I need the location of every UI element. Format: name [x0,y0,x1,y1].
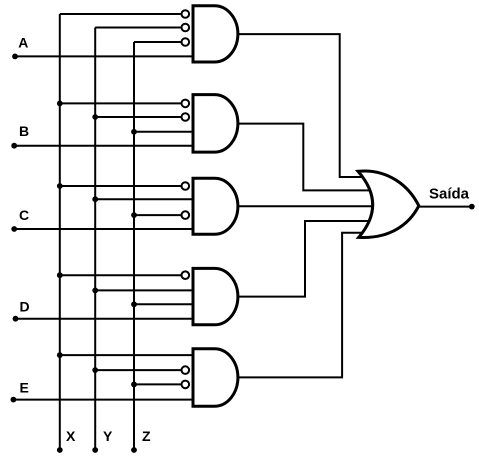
inverted input bubble U5 pin 3 [182,381,190,389]
input A terminal dot [12,54,18,60]
wire input E to U5 [13,399,193,401]
svg-text:Z: Z [142,428,151,444]
net Y terminal dot [92,447,98,453]
wire Z to U2 pin 3 [134,131,193,133]
junction X to U4 [57,272,63,278]
wire U6 output to Saida terminal [419,206,472,208]
net Z vertical wire [133,42,135,450]
inverted input bubble U1 pin 1 [182,10,190,18]
wire Z to U4 pin 3 [134,303,193,305]
input D terminal dot [13,316,19,322]
junction X to U5 [57,352,63,358]
inverted input bubble U3 pin 1 [182,182,190,190]
inverted input bubble U3 pin 3 [182,211,190,219]
inverted input bubble U4 pin 1 [182,271,190,279]
wire Y to U5 pin 2 [95,369,181,371]
AND gate U3 [193,178,238,234]
net X terminal dot [57,447,63,453]
net X vertical wire [59,14,61,450]
wire X to U2 pin 1 [60,102,182,104]
inverted input bubble U5 pin 2 [182,366,190,374]
wire input C to U3 [14,228,193,230]
junction Y to U3 [92,196,98,202]
inverted input bubble U1 pin 2 [182,24,190,32]
wire U1 output to U6 pin 1 [238,34,377,177]
junction Y to U4 [92,288,98,294]
wire U5 output to U6 pin 5 [238,233,377,378]
junction Z to U5 [131,382,137,388]
svg-text:D: D [20,299,30,315]
wire X to U1 pin 1 [60,13,182,15]
inverted input bubble U2 pin 2 [182,113,190,121]
svg-text:C: C [19,207,29,223]
wire Y to U2 pin 2 [95,116,181,118]
wire Y to U3 pin 2 [95,198,193,200]
OR gate U6 [358,171,419,238]
svg-text:Y: Y [103,428,113,444]
wire Y to U1 pin 2 [95,27,181,29]
junction Z to U3 [131,212,137,218]
wire input A to U1 [15,55,193,57]
junction X to U3 [57,183,63,189]
svg-text:A: A [18,35,28,51]
junction Y to U2 [92,114,98,120]
inverted input bubble U2 pin 1 [182,100,190,108]
net Z terminal dot [131,447,137,453]
input E terminal dot [11,397,17,403]
junction X to U2 [57,101,63,107]
junction Z to U4 [131,301,137,307]
AND gate U4 [193,268,238,324]
junction Z to U2 [131,129,137,135]
wire X to U3 pin 1 [60,185,182,187]
svg-text:Saída: Saída [429,185,470,202]
wire Y to U4 pin 2 [95,289,193,291]
output terminal dot Saida [469,204,475,210]
wire Z to U1 pin 3 [134,41,182,43]
wire input D to U4 [16,318,194,320]
AND gate U5 [193,349,238,406]
svg-text:X: X [66,428,76,444]
wire U3 output to U6 pin 3 [238,205,377,207]
input C terminal dot [11,226,17,232]
net Y vertical wire [94,28,96,451]
svg-text:B: B [19,123,29,139]
wire X to U4 pin 1 [60,274,182,276]
wire Z to U5 pin 3 [134,383,182,385]
wire X to U5 pin 1 [60,354,193,356]
inverted input bubble U1 pin 3 [182,38,190,46]
wire U4 output to U6 pin 4 [238,221,377,297]
wire input B to U2 [14,145,193,147]
AND gate U1 [193,6,238,62]
wire U2 output to U6 pin 2 [238,124,377,191]
svg-text:E: E [20,380,29,396]
junction Y to U5 [92,367,98,373]
input B terminal dot [11,143,17,149]
wire Z to U3 pin 3 [134,214,182,216]
AND gate U2 [193,95,238,153]
